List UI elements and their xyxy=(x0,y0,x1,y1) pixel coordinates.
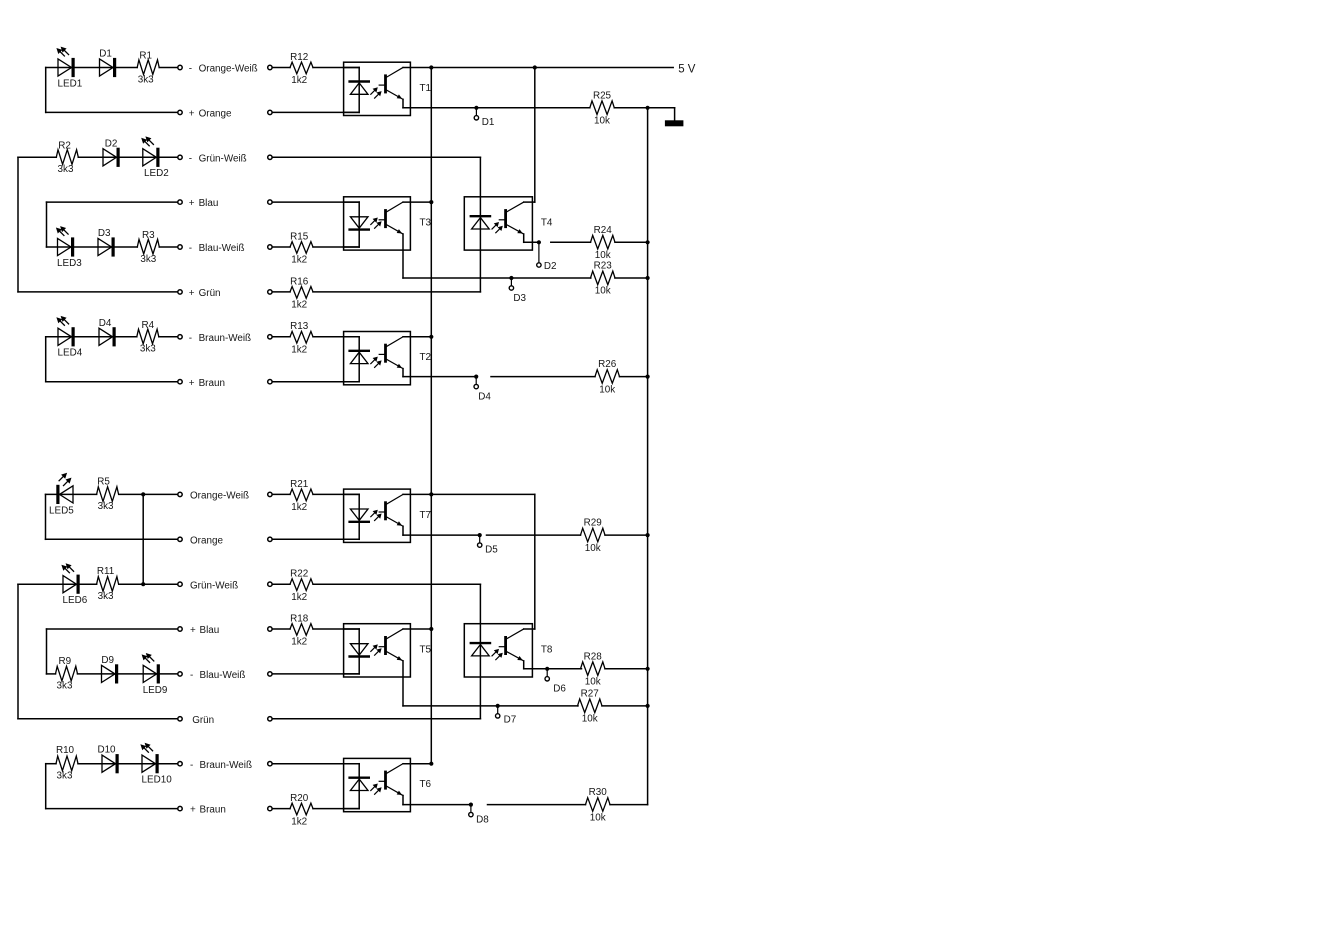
svg-text:R18: R18 xyxy=(290,613,309,624)
svg-text:10k: 10k xyxy=(594,116,610,127)
svg-text:D10: D10 xyxy=(97,745,116,756)
svg-text:R22: R22 xyxy=(290,569,308,580)
svg-text:-: - xyxy=(189,243,192,254)
svg-text:R21: R21 xyxy=(290,479,309,490)
svg-text:Braun: Braun xyxy=(200,805,226,816)
svg-text:1k2: 1k2 xyxy=(291,816,307,827)
svg-text:D9: D9 xyxy=(101,655,114,666)
svg-text:T1: T1 xyxy=(420,83,432,94)
svg-text:1k2: 1k2 xyxy=(291,502,307,513)
svg-text:1k2: 1k2 xyxy=(291,255,307,266)
svg-text:3k3: 3k3 xyxy=(138,74,154,85)
svg-text:D3: D3 xyxy=(513,293,526,304)
svg-text:LED1: LED1 xyxy=(58,78,83,89)
svg-text:3k3: 3k3 xyxy=(140,344,156,355)
svg-text:R2: R2 xyxy=(58,140,71,151)
svg-text:-: - xyxy=(189,153,192,164)
svg-text:Blau: Blau xyxy=(200,625,220,636)
svg-text:LED6: LED6 xyxy=(63,595,88,606)
svg-text:D8: D8 xyxy=(476,814,489,825)
svg-text:T8: T8 xyxy=(541,645,553,656)
svg-text:R27: R27 xyxy=(581,688,599,699)
svg-text:Braun-Weiß: Braun-Weiß xyxy=(200,760,253,771)
svg-text:Braun: Braun xyxy=(199,378,225,389)
svg-text:-: - xyxy=(190,760,193,771)
svg-text:+: + xyxy=(189,109,195,120)
svg-text:D6: D6 xyxy=(553,683,566,694)
svg-text:3k3: 3k3 xyxy=(140,254,156,265)
svg-text:R13: R13 xyxy=(290,321,309,332)
svg-text:10k: 10k xyxy=(585,543,601,554)
svg-text:D2: D2 xyxy=(544,261,557,272)
svg-text:R5: R5 xyxy=(97,476,110,487)
svg-text:D5: D5 xyxy=(485,544,498,555)
svg-text:R28: R28 xyxy=(584,651,603,662)
svg-text:-: - xyxy=(189,333,192,344)
svg-text:R30: R30 xyxy=(589,787,608,798)
svg-text:R26: R26 xyxy=(598,359,617,370)
svg-text:R24: R24 xyxy=(594,225,613,236)
svg-text:Braun-Weiß: Braun-Weiß xyxy=(199,333,252,344)
svg-text:D1: D1 xyxy=(482,117,495,128)
svg-text:T6: T6 xyxy=(420,779,432,790)
svg-text:T7: T7 xyxy=(420,510,432,521)
svg-text:Grün: Grün xyxy=(199,288,221,299)
svg-text:LED2: LED2 xyxy=(144,168,169,179)
svg-text:Grün-Weiß: Grün-Weiß xyxy=(199,153,247,164)
svg-text:3k3: 3k3 xyxy=(57,770,73,781)
svg-text:T4: T4 xyxy=(541,218,553,229)
svg-text:R23: R23 xyxy=(594,261,613,272)
svg-text:+: + xyxy=(189,198,195,209)
svg-text:D4: D4 xyxy=(478,392,491,403)
svg-text:3k3: 3k3 xyxy=(98,591,114,602)
svg-text:-: - xyxy=(189,64,192,75)
svg-text:10k: 10k xyxy=(595,286,611,297)
svg-text:D1: D1 xyxy=(99,49,112,60)
svg-text:T5: T5 xyxy=(420,645,432,656)
svg-text:Blau-Weiß: Blau-Weiß xyxy=(200,670,246,681)
svg-text:10k: 10k xyxy=(590,812,606,823)
svg-text:Grün-Weiß: Grün-Weiß xyxy=(190,580,238,591)
svg-text:10k: 10k xyxy=(599,384,615,395)
svg-text:T2: T2 xyxy=(420,352,432,363)
svg-text:5 V: 5 V xyxy=(678,63,696,75)
svg-text:R25: R25 xyxy=(593,90,612,101)
svg-text:R1: R1 xyxy=(139,51,152,62)
svg-text:R9: R9 xyxy=(58,656,71,667)
svg-text:LED3: LED3 xyxy=(57,258,82,269)
svg-text:R4: R4 xyxy=(141,320,154,331)
svg-text:+: + xyxy=(189,378,195,389)
svg-text:R11: R11 xyxy=(97,566,115,577)
svg-text:+: + xyxy=(189,288,195,299)
svg-text:Orange-Weiß: Orange-Weiß xyxy=(190,491,249,502)
svg-text:Orange: Orange xyxy=(190,535,223,546)
svg-text:Orange: Orange xyxy=(199,109,232,120)
svg-text:1k2: 1k2 xyxy=(291,592,307,603)
svg-text:R29: R29 xyxy=(584,518,603,529)
svg-text:T3: T3 xyxy=(420,218,432,229)
svg-text:LED4: LED4 xyxy=(58,348,83,359)
svg-text:3k3: 3k3 xyxy=(58,164,74,175)
svg-text:10k: 10k xyxy=(595,250,611,261)
svg-text:R12: R12 xyxy=(290,52,308,63)
svg-text:D3: D3 xyxy=(98,228,111,239)
svg-text:1k2: 1k2 xyxy=(291,75,307,86)
svg-text:+: + xyxy=(190,625,196,636)
svg-text:10k: 10k xyxy=(585,677,601,688)
svg-text:10k: 10k xyxy=(582,714,598,725)
svg-text:+: + xyxy=(190,805,196,816)
svg-text:Blau-Weiß: Blau-Weiß xyxy=(199,243,245,254)
svg-text:LED5: LED5 xyxy=(49,505,74,516)
svg-text:-: - xyxy=(190,670,193,681)
svg-text:R10: R10 xyxy=(56,745,75,756)
svg-text:1k2: 1k2 xyxy=(291,345,307,356)
svg-text:D2: D2 xyxy=(105,138,118,149)
svg-text:1k2: 1k2 xyxy=(291,300,307,311)
svg-text:R20: R20 xyxy=(290,793,309,804)
svg-text:Grün: Grün xyxy=(192,715,214,726)
svg-text:LED10: LED10 xyxy=(142,775,173,786)
svg-text:1k2: 1k2 xyxy=(291,637,307,648)
svg-text:3k3: 3k3 xyxy=(57,681,73,692)
svg-text:Blau: Blau xyxy=(199,198,219,209)
svg-text:R3: R3 xyxy=(142,230,155,241)
svg-text:LED9: LED9 xyxy=(143,685,168,696)
svg-text:Orange-Weiß: Orange-Weiß xyxy=(199,64,258,75)
svg-text:3k3: 3k3 xyxy=(98,501,114,512)
svg-text:D7: D7 xyxy=(504,715,517,726)
svg-text:R16: R16 xyxy=(290,276,309,287)
svg-text:D4: D4 xyxy=(99,318,112,329)
svg-text:R15: R15 xyxy=(290,231,309,242)
